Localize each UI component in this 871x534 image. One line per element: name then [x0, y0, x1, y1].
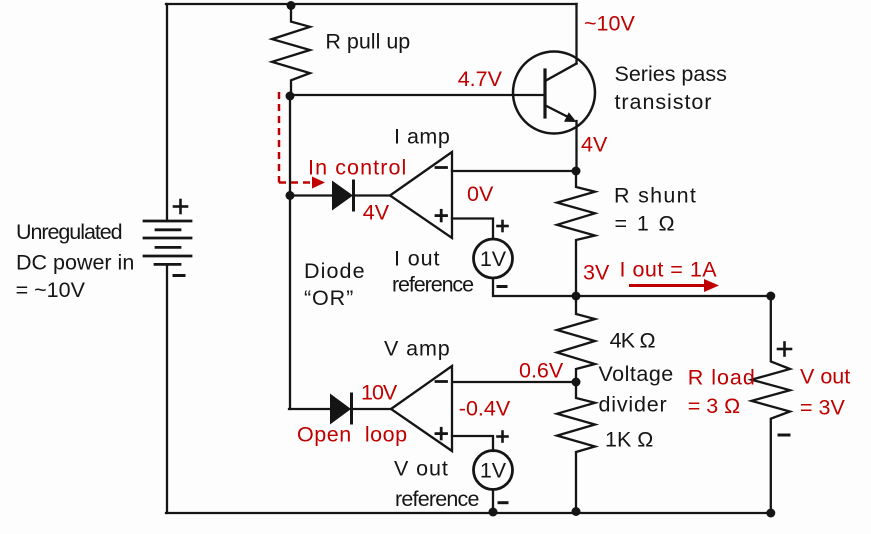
wire battery negative lead [166, 264, 168, 513]
svg-text:1K Ω: 1K Ω [605, 428, 653, 452]
resistor R pull up [272, 4, 310, 96]
node junction base [286, 92, 295, 101]
resistor divider 1K [557, 382, 595, 513]
label R load plus [778, 343, 791, 356]
label battery plus [174, 200, 187, 213]
svg-text:I out: I out [394, 246, 440, 270]
svg-text:-0.4V: -0.4V [459, 397, 511, 421]
op-amp U2 V amp [391, 366, 452, 451]
svg-text:= ~10V: = ~10V [16, 278, 86, 302]
svg-text:0.6V: 0.6V [519, 358, 564, 382]
wire emitter [575, 121, 577, 171]
battery B1 unregulated DC source [144, 221, 191, 264]
label V reference minus [499, 501, 507, 504]
resistor R shunt [557, 171, 595, 296]
resistor divider 4K [557, 296, 595, 382]
node junction R load top [766, 292, 775, 301]
svg-text:reference: reference [395, 487, 479, 511]
node junction V reference ground [489, 508, 498, 517]
svg-text:R load: R load [688, 365, 756, 389]
node junction diode OR branch [286, 191, 295, 200]
wire V amp inverting input [452, 381, 576, 383]
in-control dashed feedback arrow [279, 92, 325, 189]
svg-text:reference: reference [392, 272, 473, 296]
wire base [290, 94, 545, 96]
node junction divider ground [572, 507, 581, 516]
label I reference minus [498, 285, 506, 288]
svg-text:Diode: Diode [304, 259, 366, 283]
transistor Q1 series pass [513, 52, 595, 134]
svg-text:divider: divider [599, 392, 668, 416]
svg-text:V out: V out [800, 364, 850, 388]
svg-text:Series pass: Series pass [615, 62, 727, 86]
wire top rail [166, 3, 577, 5]
wire V amp noninverting input [452, 436, 493, 451]
wire bottom rail [166, 512, 771, 514]
svg-text:transistor: transistor [615, 90, 713, 114]
svg-text:0V: 0V [467, 182, 494, 206]
node junction R pull up top [287, 1, 296, 10]
wire battery positive lead [166, 4, 168, 221]
svg-text:Voltage: Voltage [599, 362, 674, 386]
wire I reference negative [493, 278, 576, 296]
wire I amp noninverting input [452, 219, 493, 240]
op-amp U1 I amp [390, 152, 452, 238]
label I reference plus [498, 221, 508, 231]
voltage source I out reference 1V [474, 239, 513, 278]
svg-text:Unregulated: Unregulated [16, 220, 122, 244]
svg-text:V out: V out [394, 456, 449, 480]
svg-text:~10V: ~10V [584, 12, 635, 36]
svg-text:4V: 4V [581, 132, 608, 156]
svg-text:4K Ω: 4K Ω [610, 328, 656, 352]
arrow I out direction [629, 279, 719, 292]
wire I amp inverting input [452, 170, 576, 172]
node junction R shunt top [572, 167, 581, 176]
diode D2 voltage loop [289, 394, 391, 425]
svg-text:R pull up: R pull up [325, 30, 410, 54]
svg-text:“OR”: “OR” [304, 286, 354, 310]
wire output node [576, 295, 771, 297]
svg-text:In control: In control [308, 155, 407, 179]
node junction R shunt bottom [572, 292, 581, 301]
wire V reference negative [492, 490, 494, 514]
node junction R load ground [766, 509, 775, 518]
svg-text:= 3V: = 3V [800, 395, 845, 419]
svg-text:R shunt: R shunt [614, 183, 697, 207]
svg-text:10V: 10V [361, 380, 398, 404]
svg-text:= 3 Ω: = 3 Ω [688, 394, 741, 418]
svg-text:Open loop: Open loop [297, 423, 408, 447]
svg-text:I amp: I amp [394, 124, 450, 148]
label V reference plus [498, 432, 508, 442]
svg-text:1V: 1V [480, 459, 507, 483]
svg-text:= 1 Ω: = 1 Ω [615, 211, 677, 235]
wire error bus vertical [289, 96, 291, 409]
svg-text:4.7V: 4.7V [458, 67, 503, 91]
voltage source V out reference 1V [474, 451, 513, 490]
label R load minus [779, 434, 789, 437]
diode D1 current loop [290, 181, 390, 211]
svg-text:4V: 4V [363, 200, 390, 224]
resistor R load [752, 296, 791, 513]
svg-text:3V: 3V [583, 260, 610, 284]
label battery minus [174, 274, 184, 277]
node junction divider tap [572, 378, 581, 387]
svg-text:DC power in: DC power in [16, 250, 134, 274]
wire collector [575, 4, 577, 64]
svg-text:1V: 1V [480, 247, 507, 271]
svg-text:V amp: V amp [384, 337, 451, 361]
svg-text:I out = 1A: I out = 1A [620, 257, 718, 281]
